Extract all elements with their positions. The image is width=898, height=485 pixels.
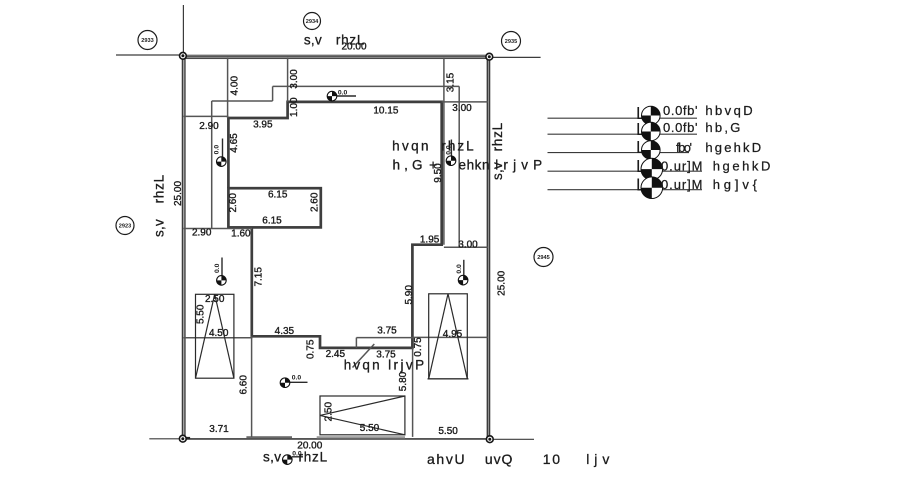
svg-text:2934: 2934 bbox=[306, 19, 319, 25]
svg-text:rhzL: rhzL bbox=[490, 122, 505, 151]
svg-text:0.0: 0.0 bbox=[338, 90, 348, 97]
svg-text:2945: 2945 bbox=[537, 255, 549, 261]
svg-text:10.15: 10.15 bbox=[373, 105, 398, 116]
svg-text:s,v: s,v bbox=[263, 450, 281, 465]
svg-text:5.50: 5.50 bbox=[196, 304, 207, 324]
svg-text:0.0: 0.0 bbox=[214, 263, 221, 273]
svg-text:2.50: 2.50 bbox=[324, 402, 335, 422]
svg-text:s,v: s,v bbox=[152, 219, 167, 237]
svg-text:h,G: h,G bbox=[393, 157, 423, 172]
svg-text:1.60: 1.60 bbox=[231, 228, 251, 239]
svg-text:10: 10 bbox=[543, 451, 561, 467]
svg-text:4.95: 4.95 bbox=[443, 329, 463, 340]
svg-text:7.15: 7.15 bbox=[254, 267, 265, 287]
svg-text:1.95: 1.95 bbox=[420, 235, 440, 246]
svg-text:1.00: 1.00 bbox=[289, 97, 300, 117]
svg-text:0.0: 0.0 bbox=[214, 145, 221, 155]
svg-text:2935: 2935 bbox=[505, 39, 517, 45]
svg-text:fbo': fbo' bbox=[676, 140, 692, 155]
svg-text:0.ur]M: 0.ur]M bbox=[661, 159, 703, 174]
svg-text:3.00: 3.00 bbox=[289, 69, 300, 89]
svg-text:0.0: 0.0 bbox=[292, 375, 302, 382]
svg-text:s,v: s,v bbox=[304, 33, 322, 48]
svg-text:6.60: 6.60 bbox=[239, 375, 250, 395]
svg-text:3.00: 3.00 bbox=[452, 103, 472, 114]
svg-text:5.90: 5.90 bbox=[404, 285, 415, 305]
svg-text:2933: 2933 bbox=[141, 38, 153, 44]
svg-text:2.60: 2.60 bbox=[228, 193, 239, 213]
svg-text:4.50: 4.50 bbox=[209, 328, 229, 339]
svg-text:ehkn: ehkn bbox=[459, 157, 490, 172]
svg-text:6.15: 6.15 bbox=[268, 189, 288, 200]
svg-text:4.00: 4.00 bbox=[229, 76, 240, 96]
svg-text:3.00: 3.00 bbox=[458, 239, 478, 250]
svg-text:5.80: 5.80 bbox=[398, 371, 409, 391]
svg-text:ahvU: ahvU bbox=[427, 451, 465, 467]
svg-text:rhzL: rhzL bbox=[299, 450, 328, 465]
svg-text:25.00: 25.00 bbox=[496, 270, 507, 295]
svg-text:0.0fb': 0.0fb' bbox=[663, 103, 698, 118]
svg-text:uvQ: uvQ bbox=[485, 451, 513, 467]
svg-text:hvqn: hvqn bbox=[344, 358, 380, 373]
svg-text:2.60: 2.60 bbox=[310, 192, 321, 212]
svg-text:0.0fb': 0.0fb' bbox=[663, 120, 698, 135]
svg-text:2.90: 2.90 bbox=[199, 121, 219, 132]
svg-text:5.50: 5.50 bbox=[360, 423, 380, 434]
svg-text:rhzL: rhzL bbox=[152, 174, 167, 203]
svg-text:hvqn: hvqn bbox=[392, 139, 428, 154]
svg-text:hbvqD: hbvqD bbox=[705, 103, 752, 118]
svg-text:+: + bbox=[429, 157, 437, 172]
svg-text:0.ur]M: 0.ur]M bbox=[661, 177, 703, 192]
svg-text:3.95: 3.95 bbox=[253, 120, 273, 131]
svg-text:3.15: 3.15 bbox=[446, 72, 457, 92]
svg-text:rhzL: rhzL bbox=[336, 33, 365, 48]
svg-text:2923: 2923 bbox=[119, 224, 131, 230]
svg-text:0.0: 0.0 bbox=[456, 264, 463, 274]
svg-text:4.35: 4.35 bbox=[275, 326, 295, 337]
svg-text:lrjvP: lrjvP bbox=[388, 358, 424, 373]
svg-text:3.75: 3.75 bbox=[377, 325, 397, 336]
svg-text:6.15: 6.15 bbox=[262, 215, 282, 226]
svg-text:25.00: 25.00 bbox=[173, 181, 184, 206]
svg-text:2.45: 2.45 bbox=[326, 349, 346, 360]
svg-text:3.71: 3.71 bbox=[209, 424, 229, 435]
svg-text:2.90: 2.90 bbox=[192, 227, 212, 238]
svg-text:2.50: 2.50 bbox=[205, 294, 225, 305]
svg-text:5.50: 5.50 bbox=[438, 426, 458, 437]
svg-text:0.75: 0.75 bbox=[413, 337, 424, 357]
svg-text:4.65: 4.65 bbox=[229, 133, 240, 153]
svg-text:0.75: 0.75 bbox=[305, 339, 316, 359]
